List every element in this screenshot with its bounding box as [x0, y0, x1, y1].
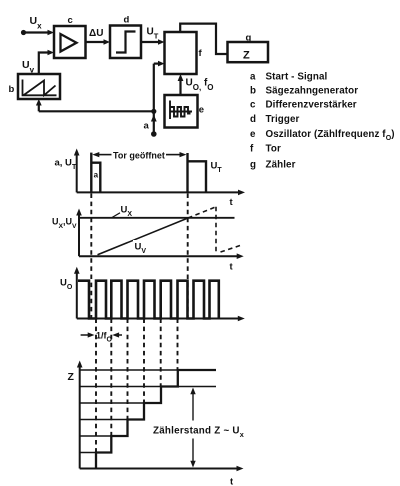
waveform U_O pulses [78, 281, 219, 319]
axis x plot4 [80, 468, 238, 470]
wire a horizontal [39, 110, 154, 112]
gate block f (Tor) [165, 32, 197, 74]
plot 3: oscillator output [60, 267, 245, 344]
op-amp block c (Differenzverstaerker) [54, 26, 86, 58]
dashed count line 1 [95, 319, 97, 453]
plot 2: ramp [52, 205, 244, 273]
svg-text:a: a [94, 171, 99, 180]
wire a vertical [153, 64, 155, 134]
annotation 1/f_O [81, 334, 89, 336]
axis y plot2 [78, 214, 80, 256]
ramp dashed drop [215, 207, 217, 252]
wire U_T d to f [141, 41, 159, 43]
axis y plot4 [79, 366, 81, 469]
wire U_v sawtooth b to amplifier c [39, 53, 49, 75]
wire e to f (clock) [179, 80, 181, 96]
ramp U_V dashed extension [188, 207, 216, 218]
staircase Z [96, 370, 216, 469]
level line 2 [80, 435, 128, 437]
svg-text:d: d [250, 114, 256, 125]
dashed count line 2 [110, 319, 112, 437]
trigger block d [110, 26, 141, 59]
svg-text:ΔU: ΔU [89, 28, 103, 39]
pulse U_T stop [186, 153, 188, 192]
level line 6 [80, 369, 216, 371]
level line 3 [80, 419, 144, 421]
svg-text:Z: Z [68, 371, 75, 383]
svg-text:Differenzverstärker: Differenzverstärker [266, 100, 357, 111]
wire dU c to d [86, 41, 105, 43]
level line 1 [80, 452, 112, 454]
ramp dashed restart [221, 245, 242, 252]
svg-text:b: b [250, 86, 256, 97]
level line 4 [80, 402, 161, 404]
counter block g (Zaehler) [228, 42, 269, 62]
svg-text:Sägezahngenerator: Sägezahngenerator [266, 86, 359, 97]
dashed line start pulse [90, 194, 92, 319]
svg-text:Tor: Tor [266, 144, 281, 155]
wire start a to b bottom (arrow up into b) [38, 104, 40, 111]
axis y plot1 [76, 154, 78, 193]
svg-text:a: a [250, 72, 256, 83]
svg-text:Z: Z [243, 50, 250, 62]
svg-text:Trigger: Trigger [266, 114, 300, 125]
label U_V plot2 [133, 240, 148, 251]
dashed count line 5 [160, 319, 162, 387]
dashed count line 6 [177, 319, 179, 371]
svg-text:d: d [124, 15, 130, 26]
annotation Tor geoeffnet [98, 154, 112, 156]
axis x plot1 [77, 191, 240, 193]
svg-text:c: c [68, 15, 73, 26]
wire a to gate f [154, 62, 159, 64]
dashed count line 4 [143, 319, 145, 404]
sawtooth generator block b [18, 74, 60, 99]
svg-text:g: g [250, 160, 256, 171]
dimension arrow Zaehlerstand [192, 392, 194, 421]
pulse a start [90, 153, 92, 193]
svg-text:e: e [250, 129, 256, 140]
svg-text:Start - Signal: Start - Signal [266, 72, 328, 83]
line U_X level [79, 217, 235, 219]
dashed count line 3 [127, 319, 129, 420]
dashed guide lines [91, 194, 187, 453]
ramp U_V solid [98, 218, 189, 255]
axis y plot3 [76, 272, 78, 319]
axis x plot3 [77, 318, 240, 320]
label U_X with leader [112, 213, 120, 218]
dashed line stop pulse [187, 194, 189, 319]
level line 5 [80, 386, 216, 388]
plot 1: gate signal [55, 149, 246, 209]
svg-text:b: b [9, 84, 15, 95]
node junction a [151, 109, 156, 114]
svg-text:Zähler: Zähler [266, 160, 296, 171]
oscillator block e [165, 95, 198, 128]
wire f to counter g [180, 24, 227, 54]
svg-text:c: c [250, 100, 256, 111]
svg-text:a: a [144, 121, 150, 132]
svg-text:g: g [246, 33, 252, 44]
axis x plot2 [79, 255, 238, 257]
svg-text:Tor geöffnet: Tor geöffnet [113, 151, 165, 161]
legend [250, 72, 395, 171]
node a input terminal [151, 131, 157, 137]
svg-text:e: e [199, 105, 204, 116]
wire U_x to amplifier c [24, 31, 49, 33]
plot 4: counter staircase [68, 361, 245, 486]
node U_x input terminal [21, 30, 26, 35]
